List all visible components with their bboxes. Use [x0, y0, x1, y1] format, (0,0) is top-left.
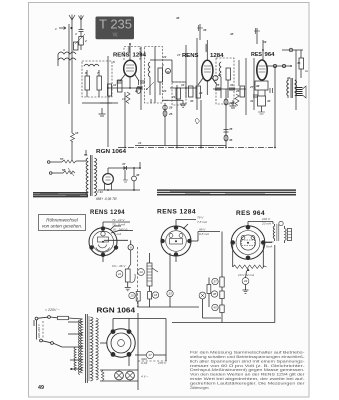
- svg-text:10 V 32 mA: 10 V 32 mA: [238, 273, 254, 277]
- svg-text:40: 40: [266, 99, 271, 103]
- svg-text:RENS 1284: RENS 1284: [157, 210, 196, 216]
- svg-text:erste Wert bei abgedrehtem, de: erste Wert bei abgedrehtem, der zweite b…: [190, 377, 305, 381]
- svg-text:1 mA: 1 mA: [114, 232, 121, 236]
- svg-text:500Ω: 500Ω: [266, 240, 274, 244]
- svg-text:23: 23: [134, 89, 139, 93]
- svg-text:26: 26: [217, 73, 222, 77]
- svg-text:9mA: 9mA: [266, 245, 272, 249]
- svg-text:270 V: 270 V: [157, 361, 167, 365]
- svg-text:48: 48: [135, 173, 140, 177]
- svg-text:56: 56: [84, 153, 88, 157]
- svg-text:29: 29: [198, 91, 203, 95]
- svg-text:messer von 60 Ω pro Volt (z. B: messer von 60 Ω pro Volt (z. B. Gleichri…: [190, 364, 305, 368]
- svg-text:12: 12: [113, 83, 117, 87]
- svg-text:45: 45: [296, 61, 301, 65]
- svg-text:36: 36: [203, 28, 207, 32]
- svg-text:25: 25: [215, 83, 220, 87]
- svg-text:98 V: 98 V: [199, 228, 206, 232]
- svg-text:gedrehtem Lautstärkeregler. Di: gedrehtem Lautstärkeregler. Die Messunge…: [190, 381, 306, 385]
- svg-text:31: 31: [230, 83, 234, 87]
- svg-text:lich aller Spannungen sind mit: lich aller Spannungen sind mit einem Spa…: [190, 359, 305, 363]
- svg-text:4: 4: [74, 32, 77, 36]
- svg-text:RENS 1294: RENS 1294: [90, 210, 125, 216]
- svg-text:≈ 220V ~: ≈ 220V ~: [45, 308, 59, 312]
- svg-text:23: 23: [162, 55, 167, 59]
- svg-text:14: 14: [138, 141, 142, 145]
- svg-text:4 V ~: 4 V ~: [141, 375, 149, 379]
- svg-text:± 31: ± 31: [97, 190, 103, 194]
- svg-text:CC...46 V: CC...46 V: [112, 264, 126, 268]
- svg-text:26: 26: [235, 89, 240, 93]
- svg-text:15: 15: [130, 294, 134, 298]
- svg-text:47: 47: [121, 162, 126, 166]
- svg-text:41: 41: [249, 99, 254, 103]
- svg-text:24: 24: [162, 89, 167, 93]
- svg-text:stellung schalten und Betriebs: stellung schalten und Betriebsspannungen…: [190, 355, 305, 359]
- svg-text:17: 17: [148, 353, 152, 357]
- svg-text:220·240 V: 220·240 V: [37, 323, 41, 339]
- svg-text:W.: W.: [113, 33, 119, 39]
- svg-text:964: 964: [265, 52, 275, 58]
- svg-text:RES: RES: [251, 52, 263, 58]
- svg-text:(0...240 V): (0...240 V): [113, 228, 127, 232]
- svg-text:Für den Messung Sammelschalter: Für den Messung Sammelschalter auf Betri…: [190, 351, 305, 355]
- svg-text:10: 10: [181, 83, 185, 87]
- svg-text:23 mA: 23 mA: [261, 222, 271, 226]
- svg-text:13: 13: [122, 97, 126, 101]
- svg-text:14: 14: [139, 270, 143, 274]
- svg-text:2: 2: [84, 39, 87, 43]
- svg-text:von unten gesehen.: von unten gesehen.: [42, 224, 82, 229]
- svg-text:45: 45: [228, 127, 233, 131]
- svg-text:7,8 mA: 7,8 mA: [197, 220, 207, 224]
- svg-text:Von den beiden Werten an der R: Von den beiden Werten an der RENS 1294 g…: [190, 373, 306, 377]
- svg-text:1294: 1294: [133, 53, 147, 59]
- svg-text:78 V: 78 V: [197, 216, 204, 220]
- svg-text:40: 40: [213, 306, 217, 310]
- svg-text:37: 37: [213, 280, 217, 284]
- svg-text:685+ -0,06 78!: 685+ -0,06 78!: [96, 197, 117, 201]
- svg-text:17: 17: [177, 53, 181, 57]
- svg-text:18: 18: [75, 131, 79, 135]
- svg-text:RGN 1064: RGN 1064: [97, 306, 136, 315]
- svg-text:32: 32: [229, 101, 233, 105]
- svg-text:1284: 1284: [210, 53, 224, 59]
- svg-text:43: 43: [244, 279, 248, 283]
- svg-text:Drehspul-Meßinstrument) gegen: Drehspul-Meßinstrument) gegen Masse geme…: [190, 368, 305, 372]
- svg-text:0,3A: 0,3A: [141, 361, 147, 365]
- svg-text:38: 38: [176, 16, 180, 20]
- svg-text:57: 57: [60, 157, 64, 161]
- svg-text:RES 964: RES 964: [236, 211, 265, 217]
- svg-text:72...14 V: 72...14 V: [112, 218, 125, 222]
- svg-text:Röhrenwechsel: Röhrenwechsel: [46, 218, 79, 223]
- svg-text:26: 26: [168, 112, 173, 116]
- svg-text:27: 27: [249, 85, 254, 89]
- svg-text:0,8 mA: 0,8 mA: [199, 232, 209, 236]
- svg-text:16: 16: [154, 293, 158, 297]
- svg-text:RGN 1064: RGN 1064: [96, 149, 126, 155]
- svg-text:RENS: RENS: [182, 53, 199, 59]
- svg-text:T 235: T 235: [99, 16, 132, 31]
- svg-text:29: 29: [168, 106, 173, 110]
- svg-text:42: 42: [255, 84, 260, 88]
- svg-text:RENS: RENS: [113, 53, 130, 59]
- svg-text:70...8 mA: 70...8 mA: [112, 223, 125, 227]
- svg-text:49: 49: [38, 385, 44, 391]
- svg-text:11: 11: [118, 272, 121, 276]
- svg-text:21: 21: [171, 95, 176, 99]
- svg-text:58: 58: [62, 168, 66, 172]
- svg-text:33: 33: [168, 292, 172, 296]
- svg-text:39: 39: [263, 40, 267, 44]
- svg-text:46: 46: [228, 138, 233, 142]
- svg-text:38: 38: [230, 32, 234, 36]
- svg-text:30: 30: [190, 99, 194, 103]
- svg-text:38: 38: [213, 292, 217, 296]
- svg-text:in: in: [305, 69, 308, 73]
- svg-text:Zählerungen.: Zählerungen.: [190, 386, 210, 390]
- svg-text:30: 30: [166, 70, 170, 74]
- svg-text:202 V: 202 V: [261, 217, 271, 221]
- svg-text:44: 44: [286, 76, 291, 80]
